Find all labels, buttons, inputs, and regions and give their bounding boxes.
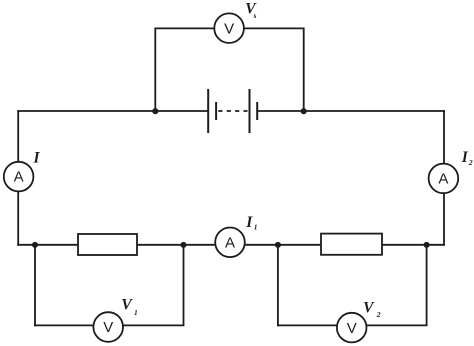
wire: bottom row, left corner to resistor R1 xyxy=(17,244,78,246)
wire: right branch upper vertical xyxy=(443,110,445,164)
svg-text:2: 2 xyxy=(376,310,381,319)
voltmeter V2 body xyxy=(337,313,367,343)
wire: right branch lower vertical xyxy=(443,193,445,246)
resistor R1 body xyxy=(78,234,137,255)
svg-text:V: V xyxy=(121,297,133,314)
junction: Vs left tap on battery row xyxy=(152,108,158,114)
svg-text:V: V xyxy=(103,319,113,336)
wire: V2 loop bottom, right of voltmeter V2 xyxy=(366,324,427,326)
battery cell 1 long plate xyxy=(207,89,209,133)
wire: top loop left vertical xyxy=(154,28,156,111)
battery cell 2 long plate xyxy=(249,89,251,133)
wire: V2 loop left vertical xyxy=(277,245,279,326)
svg-text:2: 2 xyxy=(468,158,473,167)
ammeter A2 (reads I1) body xyxy=(215,228,245,258)
wire: left branch upper vertical xyxy=(17,110,19,162)
wire: battery row, right segment xyxy=(257,110,445,112)
junction: V2 left tap on bottom row xyxy=(275,242,281,248)
svg-text:V: V xyxy=(363,300,375,317)
wire: V2 loop bottom, left of voltmeter V2 xyxy=(277,324,337,326)
junction: V1 left tap on bottom row xyxy=(32,242,38,248)
svg-text:A: A xyxy=(438,171,448,188)
svg-text:1: 1 xyxy=(134,308,138,317)
wire: bottom row, R1 to ammeter A2 xyxy=(137,244,216,246)
svg-text:1: 1 xyxy=(254,223,258,232)
wire: left branch lower vertical xyxy=(17,191,19,245)
junction: V1 right tap on bottom row xyxy=(180,242,186,248)
wire: top loop right vertical xyxy=(303,28,305,111)
wire: bottom row, A2 to resistor R2 xyxy=(245,244,322,246)
svg-text:V: V xyxy=(224,20,234,37)
wire: bottom row, R2 to right corner xyxy=(382,244,445,246)
wire: V1 loop left vertical xyxy=(34,245,36,326)
svg-text:I: I xyxy=(33,150,41,167)
wire: V1 loop bottom, left of voltmeter V1 xyxy=(34,324,93,326)
battery dashed link (omitted cells) xyxy=(218,110,247,112)
wire: V2 loop right vertical xyxy=(426,245,428,326)
junction: V2 right tap on bottom row xyxy=(424,242,430,248)
battery cell 1 short plate xyxy=(215,102,217,120)
svg-text:A: A xyxy=(225,235,235,252)
junction: Vs right tap on battery row xyxy=(301,108,307,114)
wire: battery row, left segment xyxy=(17,110,208,112)
resistor R2 body xyxy=(321,234,382,255)
battery cell 2 short plate xyxy=(256,102,258,120)
svg-text:s: s xyxy=(253,11,257,20)
svg-text:I: I xyxy=(245,214,253,231)
ammeter A3 (reads I2) body xyxy=(429,164,459,194)
voltmeter V1 body xyxy=(93,312,123,342)
svg-text:V: V xyxy=(347,320,357,337)
wire: top horizontal, left of voltmeter Vs xyxy=(154,27,214,29)
svg-text:I: I xyxy=(461,149,469,166)
wire: V1 loop bottom, right of voltmeter V1 xyxy=(123,324,184,326)
wire: top horizontal, right of voltmeter Vs xyxy=(244,27,305,29)
svg-text:A: A xyxy=(14,169,24,186)
wire: V1 loop right vertical xyxy=(183,245,185,326)
ammeter A1 (reads I) body xyxy=(4,162,34,192)
voltmeter Vs body xyxy=(214,13,244,43)
